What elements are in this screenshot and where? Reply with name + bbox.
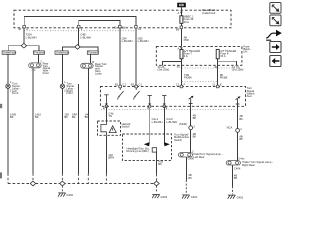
svg-text:(3rd 25th): (3rd 25th)	[232, 67, 244, 71]
svg-text:E: E	[220, 82, 222, 86]
svg-text:BK: BK	[193, 134, 197, 138]
hazard wire label	[108, 111, 113, 118]
svg-text:L-BL/WH: L-BL/WH	[166, 120, 177, 124]
svg-text:TN: TN	[108, 114, 112, 118]
fuse F3 (AT TRAILER right)	[216, 49, 236, 59]
switch output wire down	[156, 152, 158, 174]
pin labels below switch box	[103, 106, 168, 110]
svg-text:BK: BK	[35, 115, 39, 119]
hazard warning triangle	[109, 126, 116, 133]
trailer wire right dashed drop	[232, 186, 234, 194]
ground stub G203	[156, 186, 158, 193]
wire label left	[10, 112, 16, 119]
svg-text:B6: B6	[176, 27, 180, 31]
svg-text:BK: BK	[10, 115, 14, 119]
pin square switch x181	[176, 82, 186, 87]
wire marker lamp	[77, 84, 79, 174]
switch module label right	[247, 86, 255, 98]
trailer wire right lower	[232, 165, 234, 186]
branch line diamond2	[62, 47, 98, 51]
svg-text:G402: G402	[237, 195, 244, 199]
svg-text:G302: G302	[66, 193, 73, 197]
svg-text:G401: G401	[191, 195, 198, 199]
trailer wire left label 2	[193, 132, 197, 139]
svg-text:C2: C2	[122, 25, 126, 29]
pin square x=119.8	[113, 25, 126, 29]
pin square bottom hazard	[105, 105, 107, 107]
inner box label right	[174, 133, 190, 142]
svg-text:Underhood: Underhood	[202, 11, 216, 15]
pin labels under box right	[214, 65, 243, 72]
fuse F2 bottom branch	[162, 61, 181, 65]
pin square switch x120	[115, 82, 127, 87]
wire battery feed to fuse	[180, 7, 182, 16]
svg-text:B2: B2	[115, 82, 119, 86]
svg-text:BK: BK	[239, 117, 243, 121]
underhood fuse block label	[243, 44, 251, 53]
wire label 340 left	[26, 33, 37, 40]
svg-text:A: A	[178, 11, 180, 15]
wire from pin24 to splice diamond 1	[23, 28, 25, 44]
pin square bottom right turn	[163, 105, 165, 107]
inner box text	[127, 147, 150, 154]
arrow right (inner box)	[164, 142, 169, 146]
harness label box 1	[2, 51, 17, 55]
hazard feed wire	[105, 106, 107, 121]
hazard switch (dashed box)	[98, 121, 121, 135]
svg-text:BK: BK	[158, 162, 162, 166]
bulb lamp right front	[60, 80, 66, 92]
toolbar icon next	[270, 42, 281, 53]
ground G302	[58, 193, 73, 197]
harness label box 3	[55, 51, 70, 55]
wire 2 to connector	[38, 54, 40, 63]
svg-text:B3: B3	[131, 82, 135, 86]
svg-text:12: 12	[176, 82, 179, 86]
ground G203	[152, 194, 167, 198]
svg-text:Forward: Forward	[88, 51, 98, 55]
page edge mark 1	[0, 104, 2, 108]
wire below connector C1	[32, 68, 34, 174]
pin square bottom left turn	[149, 105, 151, 107]
svg-text:Running Lts (DRL): Running Lts (DRL)	[127, 149, 149, 153]
svg-text:BK: BK	[64, 115, 68, 119]
wire x136 to switch	[135, 28, 137, 86]
trailer wire left lower	[185, 157, 187, 180]
trailer wire left label 3	[188, 173, 192, 180]
svg-text:Left Rear: Left Rear	[194, 155, 205, 159]
pin A arrow (top)	[178, 11, 183, 15]
connector C4 label top	[238, 156, 245, 160]
harness dotted line 2	[182, 67, 242, 69]
trailer wire left	[190, 104, 192, 126]
left turn output wire (gray)	[149, 106, 151, 144]
svg-text:2 A: 2 A	[184, 54, 188, 58]
wire below connector C2	[87, 68, 89, 173]
inner box resistor symbol	[152, 148, 156, 152]
arrow left (inner box)	[144, 142, 149, 146]
branch line diamond1	[8, 46, 39, 51]
trailer wire right label 2	[239, 134, 243, 141]
fuse F3 bottom branch	[218, 61, 237, 65]
lamp right front label	[66, 82, 74, 96]
svg-text:L-BL/WH: L-BL/WH	[26, 35, 37, 39]
svg-text:C1: C1	[138, 27, 142, 31]
wire from pin79 to splice diamond 2	[78, 28, 80, 45]
svg-text:C404: C404	[234, 166, 241, 170]
connector C4 label	[242, 160, 273, 167]
svg-text:Asm: Asm	[247, 94, 253, 98]
inline connector C3	[179, 149, 195, 160]
wire label x120	[122, 36, 133, 43]
svg-text:C: C	[34, 68, 36, 72]
pin square switch x136	[131, 82, 143, 87]
wire label marker	[72, 112, 77, 119]
svg-text:Forward: Forward	[34, 51, 44, 55]
connector C2 label	[95, 62, 107, 76]
wire fuse F1 to box edge	[180, 23, 182, 46]
bus bar A (inner solid line)	[24, 17, 136, 28]
pin square x=24	[18, 25, 28, 31]
splice diamond bus 1	[30, 181, 35, 186]
splice diamond bus 2	[60, 181, 65, 186]
svg-text:BRN: BRN	[108, 155, 114, 159]
svg-text:(S340): (S340)	[179, 122, 187, 126]
hazard switch contact	[101, 121, 107, 135]
svg-text:L-BL/WH: L-BL/WH	[80, 35, 91, 39]
trailer wire left mid	[190, 130, 192, 153]
svg-text:40: 40	[18, 27, 21, 31]
wire label x181	[184, 35, 190, 42]
wire label x217 lower	[220, 73, 228, 80]
svg-text:T1: T1	[177, 65, 181, 69]
trailer wire right	[237, 104, 239, 129]
page edge mark 2	[0, 172, 2, 178]
switch blade 2	[134, 88, 140, 100]
bus bar B (inner solid line)	[79, 21, 120, 28]
svg-text:Switch: Switch	[122, 124, 130, 128]
connector C1 label	[43, 61, 51, 75]
svg-text:Switch: Switch	[174, 138, 182, 142]
wire label x136	[138, 36, 149, 43]
harness dotted line 3	[182, 81, 218, 83]
splice diamond bus 3	[154, 181, 159, 186]
svg-text:C1: C1	[122, 82, 126, 86]
trailer wire right label	[239, 114, 243, 121]
splice diamond 2	[75, 45, 80, 50]
svg-text:Lamp: Lamp	[95, 71, 102, 75]
turn signal switch module (big dashed box)	[100, 86, 245, 106]
svg-text:BK: BK	[85, 115, 89, 119]
harness dotted line top	[24, 30, 137, 32]
toolbar icon zoom in	[270, 15, 281, 26]
wire label x181 lower	[184, 73, 192, 80]
toolbar icon prev	[270, 56, 281, 67]
wire label left3	[64, 112, 69, 119]
fuse block label	[202, 8, 217, 15]
hazard switch label	[122, 122, 131, 129]
svg-text:NCA: NCA	[227, 126, 233, 130]
connector C3 label	[194, 152, 223, 159]
switch blade 1	[118, 88, 124, 100]
lamp left front label	[12, 82, 20, 96]
svg-text:15 A: 15 A	[220, 54, 226, 58]
inline connector C1 (left)	[29, 59, 43, 71]
svg-text:BK: BK	[234, 176, 238, 180]
inline connector C4	[226, 161, 241, 171]
trailer wire right mid	[237, 132, 239, 160]
svg-text:BK: BK	[72, 115, 76, 119]
harness label box 4	[87, 51, 98, 55]
svg-text:40: 40	[113, 25, 116, 29]
wire left lamp lower	[7, 88, 9, 173]
bulb lamp left front	[6, 80, 12, 92]
svg-text:Front: Front	[66, 91, 73, 95]
svg-text:Front: Front	[43, 71, 50, 75]
svg-text:A: A	[178, 46, 180, 50]
pin square switch x217	[212, 82, 222, 87]
underhood fuse block (dashed box)	[156, 47, 242, 66]
svg-text:BK: BK	[193, 116, 197, 120]
svg-text:10 A: 10 A	[184, 20, 190, 24]
wire label mid2	[85, 112, 90, 119]
toolbar icon zoom out	[270, 3, 281, 14]
svg-text:Front: Front	[12, 91, 19, 95]
off-page arrow right	[236, 96, 241, 104]
trailer wire left label	[193, 113, 197, 120]
hazard out wire label	[108, 153, 114, 160]
svg-text:Underhood: Underhood	[56, 51, 70, 55]
svg-text:BK: BK	[188, 176, 192, 180]
wire right lamp upper	[61, 54, 63, 84]
svg-text:PK/BK: PK/BK	[184, 75, 192, 79]
pin A arrow underhood	[178, 46, 183, 50]
battery feed icon (black box)	[177, 3, 186, 8]
ground G401	[182, 195, 198, 199]
svg-text:L-BL/WH: L-BL/WH	[138, 39, 149, 43]
harness label box 2	[33, 51, 44, 55]
contact right turn out	[162, 96, 166, 107]
inline connector C2 (middle)	[81, 60, 95, 68]
toolbar icon jump arrow	[266, 30, 282, 40]
splice S2	[227, 126, 243, 133]
wire 4 to connector	[90, 54, 92, 63]
svg-text:L-BL/WH: L-BL/WH	[122, 39, 133, 43]
contact left turn out	[148, 96, 152, 107]
right turn output wire	[163, 106, 165, 144]
switch out dashed drop	[156, 174, 158, 181]
wire label mid1	[35, 112, 41, 119]
svg-text:PK/BK: PK/BK	[220, 75, 228, 79]
svg-text:UH: UH	[243, 50, 247, 54]
harness dotted line 4	[101, 109, 236, 111]
pin square fuse exit	[176, 26, 183, 31]
svg-text:L-BL/WH: L-BL/WH	[152, 120, 163, 124]
fuse F2 (AT TRAILER left)	[180, 49, 200, 59]
fuse F1 (MBEC)	[180, 15, 194, 24]
left turn wire label	[152, 117, 163, 124]
svg-text:B: B	[92, 60, 94, 64]
svg-text:C1: C1	[138, 82, 142, 86]
switch output label	[158, 160, 163, 167]
right turn wire label	[166, 117, 177, 124]
trailer wire left dashed drop	[185, 180, 187, 194]
svg-text:11: 11	[212, 82, 215, 86]
svg-text:PNK: PNK	[184, 38, 190, 42]
hazard out dashed drop	[105, 174, 107, 184]
turn signal switch inner (dashed box)	[123, 134, 172, 160]
pin labels under box left	[158, 65, 181, 72]
wire1 dashed drop	[8, 174, 88, 184]
svg-text:(3rd 25th): (3rd 25th)	[158, 67, 170, 71]
ground G402	[228, 195, 244, 199]
svg-text:Right Rear: Right Rear	[242, 163, 255, 167]
ground bus (dashed)	[8, 183, 157, 185]
svg-text:C4xx: C4xx	[238, 156, 245, 160]
contact hazard feed	[104, 95, 108, 106]
off-page arrow left	[189, 96, 194, 104]
wire left lamp upper	[7, 54, 9, 84]
fuse block module (top dashed box)	[14, 10, 231, 28]
wire x120 to switch	[119, 28, 121, 86]
wire fuse F2 down	[180, 59, 182, 86]
trailer wire right label 3	[234, 174, 238, 181]
svg-text:BK: BK	[239, 137, 243, 141]
svg-text:G203: G203	[161, 195, 168, 199]
svg-text:Underhood: Underhood	[3, 51, 17, 55]
splice diamond 1	[21, 43, 26, 48]
pin square x=78.7	[77, 25, 82, 31]
wire right lamp lower	[61, 88, 63, 173]
wire label mid-left	[80, 33, 91, 40]
pin square x=135.9	[135, 25, 142, 31]
ground stub G302	[61, 186, 63, 193]
wire fuse F3 down	[217, 59, 219, 86]
splice S1	[179, 122, 195, 130]
hazard switch output wire	[105, 135, 107, 174]
